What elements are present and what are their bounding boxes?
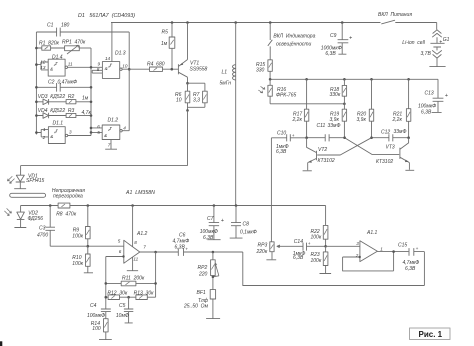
svg-text:&: & — [50, 66, 53, 71]
svg-text:5мГн: 5мГн — [220, 81, 232, 87]
svg-text:C3: C3 — [39, 225, 46, 231]
node dots R12 row — [105, 296, 130, 299]
potentiometer RP2 — [198, 252, 219, 290]
svg-text:RP2: RP2 — [198, 265, 208, 271]
photodiode VD2 — [4, 206, 43, 228]
resistor R5 — [161, 23, 175, 70]
resistor R23 — [311, 246, 332, 273]
svg-text:6,3В: 6,3В — [405, 266, 416, 272]
svg-text:180: 180 — [61, 23, 70, 29]
svg-text:100к: 100к — [311, 258, 322, 264]
wire noninverting input row — [50, 245, 124, 247]
resistor R15 — [256, 60, 272, 80]
capacitor C11 — [307, 123, 345, 141]
node dot output A1.2 — [154, 251, 157, 254]
resistor R14 — [91, 319, 112, 340]
node dot R9 R10 — [87, 245, 90, 248]
resistor R13 — [134, 290, 156, 299]
svg-text:3,9к: 3,9к — [330, 117, 340, 123]
svg-text:C11: C11 — [317, 123, 326, 129]
svg-text:C2: C2 — [48, 79, 55, 85]
svg-text:10: 10 — [176, 98, 182, 104]
resistor R6 — [175, 83, 190, 110]
IC label D1 561LA7 CD4093 — [78, 13, 135, 19]
resistor R2 — [66, 100, 91, 104]
resistor R4 — [147, 61, 165, 71]
svg-text:C7: C7 — [207, 216, 214, 222]
svg-text:6,3В: 6,3В — [203, 235, 214, 241]
svg-text:C12: C12 — [381, 130, 390, 136]
wire indicator rail — [270, 78, 438, 80]
svg-text:4: 4 — [123, 126, 126, 131]
svg-text:D1.4: D1.4 — [52, 54, 63, 60]
svg-text:2: 2 — [42, 135, 46, 140]
wire lower supply rail — [21, 205, 326, 207]
node dot R18 R19 — [343, 103, 346, 106]
svg-text:RP1 470к: RP1 470к — [62, 40, 86, 46]
capacitor C9 — [321, 23, 353, 58]
svg-text:1м: 1м — [82, 96, 89, 102]
node dots indicator rail — [269, 78, 410, 81]
LED VD1 infrared — [7, 166, 44, 189]
svg-text:L1: L1 — [222, 70, 228, 76]
svg-text:6,3В: 6,3В — [293, 255, 304, 261]
svg-text:R5: R5 — [162, 29, 169, 35]
svg-text:100: 100 — [92, 326, 101, 332]
svg-text:5: 5 — [118, 238, 121, 243]
wire inverting feedback vertical — [105, 257, 107, 309]
svg-text:6: 6 — [119, 249, 122, 254]
svg-text:D1.1: D1.1 — [53, 120, 64, 126]
op-amp A1.2 — [106, 206, 148, 271]
node dot RP2 wiper — [212, 276, 215, 279]
capacitor C10 — [271, 131, 306, 155]
svg-text:D1.3: D1.3 — [115, 51, 126, 57]
svg-text:4700: 4700 — [37, 232, 48, 238]
resistor R18 — [330, 79, 347, 104]
svg-text:+: + — [416, 246, 419, 251]
svg-text:10: 10 — [122, 64, 128, 69]
resistor R7 — [188, 83, 208, 107]
svg-text:0,1мкФ: 0,1мкФ — [240, 230, 257, 236]
wire VDD top rail — [111, 22, 437, 24]
svg-text:VT1: VT1 — [190, 60, 199, 66]
svg-text:Рис. 1: Рис. 1 — [419, 330, 443, 339]
capacitor C2 — [36, 79, 91, 91]
svg-text:220к: 220к — [256, 249, 268, 255]
battery G1 Li-ion — [402, 23, 449, 67]
svg-text:VT3: VT3 — [386, 145, 395, 151]
svg-text:&: & — [50, 134, 53, 139]
node R6 R7 bottom — [186, 109, 189, 112]
inductor L1 — [220, 23, 236, 206]
svg-text:C10: C10 — [277, 131, 286, 137]
svg-text:R4 680: R4 680 — [147, 61, 165, 67]
svg-text:D1.2: D1.2 — [108, 117, 119, 123]
svg-text:33мФ: 33мФ — [328, 123, 341, 129]
svg-text:1м: 1м — [161, 41, 168, 47]
svg-text:6,3В: 6,3В — [421, 110, 432, 116]
svg-text:R11 200к: R11 200к — [122, 276, 145, 282]
transistor VT1 — [178, 23, 207, 84]
svg-text:RP3: RP3 — [258, 243, 268, 249]
opaque partition — [10, 188, 86, 200]
wire oscillator left vertical — [35, 32, 37, 135]
svg-text:VD4 КД522 R3: VD4 КД522 R3 — [38, 108, 75, 114]
svg-text:3,9к: 3,9к — [357, 117, 367, 123]
resistor R21 — [392, 79, 411, 137]
switch SA power — [378, 12, 412, 24]
capacitor C15 — [398, 242, 424, 272]
transistor VT2 — [303, 138, 335, 171]
svg-text:6: 6 — [97, 124, 100, 129]
svg-text:ФРК-765: ФРК-765 — [276, 92, 296, 98]
svg-text:330к: 330к — [330, 92, 341, 98]
svg-text:C4: C4 — [90, 303, 97, 309]
resistor R12 — [106, 290, 136, 299]
svg-text:перегородка: перегородка — [53, 194, 83, 200]
svg-text:2: 2 — [355, 253, 359, 258]
svg-text:G1: G1 — [443, 37, 450, 43]
gate D1.3 — [92, 23, 128, 79]
transistor VT3 — [376, 138, 414, 171]
svg-text:А1 LM358N: А1 LM358N — [125, 190, 155, 196]
svg-text:3,3: 3,3 — [193, 98, 200, 104]
svg-text:ВКЛ Индикатора: ВКЛ Индикатора — [273, 34, 315, 40]
svg-text:R1 820к: R1 820к — [39, 40, 60, 46]
svg-text:6,3В: 6,3В — [325, 51, 336, 57]
svg-text:100к: 100к — [311, 235, 322, 241]
capacitor C8 — [230, 206, 257, 239]
figure label box — [410, 328, 451, 340]
svg-text:&: & — [105, 66, 108, 71]
capacitor C14 with wiper arrow — [277, 239, 326, 261]
svg-text:Li-ion cell: Li-ion cell — [402, 40, 425, 46]
svg-text:+: + — [292, 133, 295, 138]
svg-text:C5: C5 — [119, 303, 126, 309]
capacitor C7 — [200, 206, 225, 241]
svg-text:6,3В: 6,3В — [175, 245, 186, 251]
wire transmitter return rail — [21, 165, 188, 167]
resistor R22 — [311, 206, 328, 247]
svg-text:0,47мкФ: 0,47мкФ — [58, 79, 78, 85]
svg-text:12: 12 — [40, 59, 46, 64]
wire to pin3 A1.1 — [326, 245, 360, 247]
resistor R10 — [72, 246, 93, 273]
svg-text:14: 14 — [105, 56, 111, 61]
wire emitter return down — [187, 110, 189, 165]
svg-text:8: 8 — [97, 67, 100, 72]
svg-text:2,2к: 2,2к — [292, 117, 303, 123]
switch SA light indicator — [268, 23, 316, 60]
resistor R9 — [72, 206, 90, 247]
svg-text:7: 7 — [143, 244, 146, 249]
potentiometer RP3 — [256, 242, 277, 260]
wire D1.2 output up to feedback vertical — [122, 32, 129, 131]
node dot RP2 top — [212, 251, 215, 254]
resistor R3 — [66, 113, 91, 117]
svg-text:A1.2: A1.2 — [136, 231, 148, 237]
svg-text:330: 330 — [256, 68, 265, 74]
svg-text:220: 220 — [198, 272, 208, 278]
svg-text:13: 13 — [40, 65, 46, 70]
op-amp label A1 LM358N — [125, 190, 155, 196]
svg-text:10мФ: 10мФ — [116, 313, 129, 319]
ground pin7 of D1.2 — [105, 140, 117, 150]
svg-text:1: 1 — [43, 127, 46, 132]
svg-text:КТ3102: КТ3102 — [318, 158, 335, 164]
photoresistor R16 — [258, 79, 344, 104]
headphone BF1 — [183, 290, 220, 319]
svg-text:33мФ: 33мФ — [394, 129, 407, 135]
node dots multivibrator row — [305, 136, 410, 139]
op-amp A1.1 — [343, 230, 409, 271]
resistor R17 — [292, 79, 309, 137]
node dots R11 — [105, 282, 157, 285]
resistor R19 — [330, 104, 347, 138]
diode VD4 — [36, 108, 91, 119]
resistor R1 — [36, 40, 64, 50]
svg-text:R8 470к: R8 470к — [56, 212, 77, 218]
wire C6 to corner and long bottom wire — [213, 252, 425, 286]
svg-text:VT2: VT2 — [318, 147, 327, 153]
svg-text:+: + — [308, 241, 311, 246]
diode VD3 — [36, 94, 88, 104]
wire RP1 to pin9 vertical — [90, 48, 92, 135]
capacitor C5 — [116, 297, 133, 323]
gate D1.1 — [36, 120, 72, 143]
svg-text:C6: C6 — [179, 233, 186, 239]
svg-text:2,2к: 2,2к — [392, 117, 403, 123]
capacitor C3 — [37, 206, 55, 247]
node dots oscillator — [35, 47, 130, 134]
wire output down to R13 — [155, 252, 157, 297]
resistor R20 — [357, 79, 374, 137]
resistor R11 — [106, 276, 156, 286]
svg-text:+: + — [185, 246, 188, 251]
capacitor C13 — [418, 79, 449, 115]
svg-text:5: 5 — [97, 130, 100, 135]
svg-text:R12 30к: R12 30к — [107, 290, 128, 296]
gate D1.2 — [91, 117, 126, 147]
svg-text:100к: 100к — [72, 261, 83, 267]
svg-text:3,7В: 3,7В — [421, 51, 432, 57]
wire cross coupling A — [345, 138, 400, 155]
svg-text:8: 8 — [134, 240, 137, 245]
node R4 R5 base — [171, 68, 174, 71]
svg-text:C8: C8 — [243, 222, 250, 228]
svg-text:D1 561ЛА7 (CD4093): D1 561ЛА7 (CD4093) — [78, 13, 135, 19]
stray mark bottom-left corner — [0, 341, 2, 346]
svg-text:100мкФ: 100мкФ — [87, 313, 105, 319]
svg-text:ВКЛ Питания: ВКЛ Питания — [378, 12, 412, 18]
svg-text:ФД256: ФД256 — [28, 216, 44, 222]
wire D1.1 output to D1.2 inputs vertical — [68, 87, 91, 135]
wire D1.4 output to D1.3 pin9 — [68, 66, 103, 68]
capacitor C4 — [87, 303, 111, 319]
svg-text:3: 3 — [356, 241, 359, 246]
node VT1 emitter — [186, 82, 189, 85]
wire output row A1.2 — [140, 251, 213, 253]
svg-text:C13: C13 — [425, 91, 434, 97]
capacitor C12 — [372, 129, 409, 142]
svg-text:A1.1: A1.1 — [366, 230, 378, 236]
resistor R8 — [56, 203, 77, 218]
svg-text:C1: C1 — [47, 23, 54, 29]
svg-text:C15: C15 — [398, 242, 407, 248]
svg-text:освещённости: освещённости — [276, 42, 312, 48]
svg-text:25..50 Ом: 25..50 Ом — [183, 304, 209, 310]
wire C10 down to RP3 — [270, 138, 272, 242]
capacitor C1 — [36, 23, 129, 37]
node dot R22 R23 — [324, 245, 327, 248]
svg-text:&: & — [104, 133, 107, 138]
svg-text:7: 7 — [108, 143, 111, 148]
svg-text:11: 11 — [68, 61, 73, 66]
capacitor C6 — [173, 233, 190, 256]
svg-text:R13 30к: R13 30к — [134, 290, 155, 296]
svg-text:КТ3102: КТ3102 — [376, 159, 393, 165]
node dots lower rail — [49, 204, 237, 207]
potentiometer RP1 — [62, 40, 91, 54]
svg-text:SS9558: SS9558 — [190, 67, 208, 73]
node dots on top rail — [171, 21, 344, 24]
svg-text:C14: C14 — [294, 239, 303, 245]
svg-text:BF1: BF1 — [197, 290, 206, 296]
gate D1.4 — [36, 54, 73, 76]
svg-text:3: 3 — [69, 130, 72, 135]
svg-text:11: 11 — [133, 257, 138, 262]
svg-text:1: 1 — [380, 247, 383, 252]
wire cross coupling B — [317, 138, 371, 155]
svg-text:C9: C9 — [330, 33, 337, 39]
svg-text:SFH415: SFH415 — [26, 178, 45, 184]
wire D1.3 output to VT1 base — [122, 68, 178, 70]
svg-text:100к: 100к — [72, 234, 83, 240]
svg-text:6,3В: 6,3В — [276, 149, 287, 155]
